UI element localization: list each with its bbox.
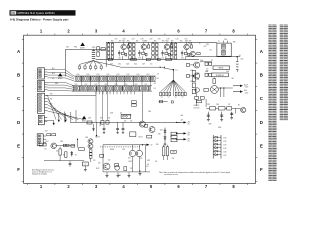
wire bottom return [103, 145, 150, 172]
schematic border frame [24, 35, 256, 183]
wire rail row C [70, 121, 181, 123]
diode D942 [71, 151, 73, 157]
component reference labels scatter [44, 41, 240, 177]
wire riser to rail [70, 112, 72, 122]
transistor pair Q950 [129, 145, 143, 172]
svg-text:3R3: 3R3 [171, 40, 174, 42]
svg-text:3R3: 3R3 [180, 40, 183, 42]
svg-text:6-6) Diagrama Elétrico - Power: 6-6) Diagrama Elétrico - Power Supply pa… [10, 17, 69, 21]
inline resistors bottom rail [108, 58, 171, 60]
resistor ladder R931 [152, 42, 154, 59]
note line bottom-right [159, 171, 230, 176]
svg-text:3114: 3114 [206, 44, 209, 46]
svg-text:7407: 7407 [122, 149, 125, 151]
connector pin labels [35, 70, 36, 145]
svg-text:6105: 6105 [127, 74, 130, 76]
transistor Q951 [103, 163, 110, 170]
resistor R951 [209, 62, 212, 65]
wire drops near PTC [92, 122, 100, 136]
capacitor C932 [230, 112, 233, 116]
junction dot main [173, 69, 175, 71]
capacitor C934 [171, 42, 173, 48]
capacitor drop C923 [122, 122, 125, 133]
svg-text:9-1: 9-1 [175, 70, 177, 72]
resistor R947 [197, 53, 200, 55]
inductor L901 [236, 57, 238, 72]
svg-text:471: 471 [228, 104, 230, 106]
svg-text:BC557: BC557 [139, 136, 143, 138]
svg-text:BC547 2213: BC547 2213 [124, 115, 132, 117]
junction dots right [218, 87, 233, 97]
capacitor drop C922 [116, 122, 119, 133]
capacitor C920 [130, 132, 136, 137]
svg-text:FW: FW [11, 12, 16, 15]
svg-text:BC: BC [238, 105, 240, 107]
wire conn D feed [44, 121, 53, 123]
wire links between banks [82, 81, 151, 86]
svg-text:3R3: 3R3 [119, 40, 122, 42]
svg-text:3R3: 3R3 [136, 40, 139, 42]
transistor Q920 [141, 41, 146, 50]
off-page arrow AC1 [233, 83, 248, 88]
svg-text:NC: NC [52, 78, 54, 80]
svg-text:3R3: 3R3 [127, 40, 130, 42]
svg-text:BD139: BD139 [96, 137, 100, 139]
note block bottom-left [32, 168, 55, 175]
svg-text:2107: 2107 [142, 64, 145, 66]
capacitor C930 [207, 112, 210, 118]
junction node 4a [171, 42, 172, 43]
svg-text:4148: 4148 [223, 137, 226, 139]
wire stubs below bank D2 [96, 91, 135, 94]
wire rail bottom center [103, 144, 152, 147]
wire Q915 collector [200, 61, 212, 63]
signal arrow S1 (down) [53, 123, 55, 126]
svg-text:7408: 7408 [148, 111, 151, 113]
svg-text:CN3: CN3 [45, 131, 48, 133]
row grid letters left [17, 49, 21, 172]
resistor R982 [210, 107, 216, 110]
wire mains top rail [66, 49, 106, 76]
svg-text:+5V: +5V [157, 73, 160, 75]
junction node 3a [152, 42, 153, 43]
transistor Q952 [115, 165, 120, 170]
warning triangle W3 [82, 116, 87, 123]
resistor ladder R941 [171, 42, 173, 59]
svg-text:1k5: 1k5 [120, 113, 122, 115]
svg-text:474: 474 [210, 49, 212, 51]
svg-text:100u: 100u [134, 64, 137, 66]
svg-text:F901: F901 [74, 47, 77, 49]
off-page arrow OP1 [176, 121, 190, 125]
ground symbol G4 [84, 170, 87, 172]
svg-text:3109: 3109 [110, 113, 113, 115]
svg-text:104: 104 [124, 121, 126, 123]
svg-text:222: 222 [170, 136, 172, 138]
svg-text:1R0: 1R0 [172, 152, 175, 154]
svg-text:103: 103 [128, 157, 130, 159]
svg-text:BYD: BYD [233, 42, 236, 44]
connector CN804 [37, 134, 46, 146]
svg-text:GND: GND [55, 83, 58, 85]
capacitor C931 [220, 112, 223, 118]
ground symbol G2 [220, 118, 223, 121]
transistor Q942 [88, 144, 93, 149]
transistor Q945 [51, 143, 57, 149]
wire drop right of Q950 [146, 145, 151, 172]
triac circle D950 [211, 86, 219, 94]
diode D965 [213, 150, 221, 152]
labels above top rail [111, 38, 192, 42]
warning triangle W2 [58, 73, 63, 80]
resistor R971 [106, 91, 109, 124]
svg-text:+12V: +12V [180, 120, 183, 122]
wire verticals from harness [65, 110, 76, 122]
svg-text:F: F [260, 167, 263, 172]
svg-text:6115: 6115 [75, 84, 78, 86]
svg-text:3R3: 3R3 [154, 40, 157, 42]
svg-text:P13: P13 [53, 109, 56, 111]
resistor R925 [142, 42, 147, 59]
junction node 1a [108, 42, 109, 43]
svg-text:+B1: +B1 [187, 122, 190, 124]
transistor Q915 [186, 62, 199, 72]
conn E value labels [47, 134, 56, 136]
svg-text:250V: 250V [226, 71, 229, 73]
svg-text:6105: 6105 [87, 74, 90, 76]
resistor R973 [147, 135, 152, 138]
off-page arrow OP2 [176, 132, 190, 136]
signal arrow S2 (down) [58, 113, 60, 122]
column grid numbers bottom [40, 184, 236, 189]
svg-text:3R3: 3R3 [189, 40, 192, 42]
connector CN801 [38, 68, 48, 79]
svg-text:471: 471 [130, 168, 132, 170]
capacitor C941 [69, 161, 72, 167]
svg-text:S901: S901 [205, 71, 208, 73]
svg-text:P12: P12 [50, 104, 53, 106]
capacitor bank box U901 [217, 39, 231, 57]
svg-text:9-2: 9-2 [168, 97, 170, 99]
svg-text:4148: 4148 [223, 148, 226, 150]
resistor R945 [185, 42, 190, 59]
wire harness CN802 fanout [48, 96, 85, 120]
svg-text:E: E [260, 144, 263, 149]
svg-text:9-2: 9-2 [182, 97, 184, 99]
svg-text:6115: 6115 [145, 84, 148, 86]
svg-text:7315: 7315 [165, 41, 169, 43]
svg-text:7406: 7406 [85, 137, 88, 139]
svg-text:470u: 470u [118, 64, 121, 66]
svg-text:9-2: 9-2 [175, 97, 177, 99]
resistor R998 [115, 164, 119, 167]
svg-text:224: 224 [146, 166, 148, 168]
capacitor C916 [118, 50, 120, 56]
wire band to rail [95, 91, 97, 122]
wire Q917 drop [196, 92, 198, 106]
wire harness CN801 to band [48, 70, 75, 91]
capacitor C914 [127, 42, 129, 48]
grid tick marks left/right edges [22, 39, 257, 181]
resistor R997 [166, 145, 168, 160]
transistor Q941 [88, 139, 93, 144]
svg-text:POWER SW: POWER SW [216, 75, 225, 77]
svg-text:E1: E1 [63, 155, 65, 157]
resistor R952 [205, 73, 208, 76]
svg-text:472: 472 [130, 121, 132, 123]
dashed standby boundary [100, 146, 140, 148]
label box R-value [171, 150, 176, 153]
power rail top (row A) [106, 41, 217, 43]
warning triangle W1 (top) [80, 42, 85, 49]
resistor boxes lower right-mid [194, 97, 205, 110]
svg-text:7115: 7115 [122, 41, 125, 43]
connector CN801B [38, 80, 48, 91]
svg-text:6115: 6115 [95, 84, 98, 86]
svg-text:0R22: 0R22 [96, 168, 99, 170]
svg-text:2211: 2211 [138, 57, 141, 59]
resistor column R960 [192, 71, 200, 94]
resistor ladder R921 [129, 42, 131, 59]
parts list column 1 [268, 25, 276, 181]
wire into ladder [205, 99, 207, 107]
resistor R954 [209, 73, 212, 76]
svg-text:B: B [260, 73, 263, 78]
svg-text:4148: 4148 [223, 151, 226, 153]
IC box bottom [83, 162, 89, 166]
wire standby rail [44, 139, 91, 169]
svg-text:3R3: 3R3 [145, 40, 148, 42]
row grid letters right [260, 49, 264, 172]
zener diode D920 [164, 128, 166, 143]
svg-text:6106: 6106 [200, 60, 203, 62]
fuse F902 [97, 47, 100, 57]
svg-text:P11: P11 [50, 99, 53, 101]
resistor chain R992 [89, 150, 92, 158]
svg-text:R50: R50 [156, 144, 159, 146]
ground symbol G3 [164, 143, 167, 146]
parts list column 2 [280, 25, 288, 121]
diode D964 [213, 147, 221, 149]
svg-text:3103: 3103 [88, 118, 91, 120]
svg-text:F: F [17, 167, 20, 172]
rectifier-filter bank D2 [72, 86, 152, 91]
ground symbol G5 [230, 116, 233, 119]
diode D962 [213, 140, 221, 142]
resistor R953 [204, 88, 208, 91]
resistor ladder R911 [107, 42, 109, 59]
page title [10, 17, 69, 21]
junction node 2a [129, 42, 130, 43]
svg-text:BD911: BD911 [129, 161, 133, 163]
svg-text:4822: 4822 [241, 58, 244, 60]
svg-text:47k: 47k [155, 161, 157, 163]
svg-text:6105: 6105 [107, 74, 110, 76]
capacitor C946 [181, 50, 183, 56]
transistor Q940 [184, 41, 189, 50]
capacitor C926 [138, 50, 140, 56]
rail return wire diagonal [94, 61, 173, 70]
transistor Q910 [121, 41, 126, 50]
band labels row 2 [75, 84, 148, 86]
resistor R935 [165, 42, 170, 59]
svg-text:~220V: ~220V [244, 87, 248, 89]
diode D966 [213, 154, 221, 156]
resistor R991 vertical [59, 147, 61, 155]
svg-text:105: 105 [157, 78, 160, 80]
ground symbol G1 [207, 118, 210, 121]
resistor ladder R942 [174, 42, 176, 59]
fan tap labels [161, 97, 184, 99]
junction node bottom [77, 139, 78, 140]
svg-text:104: 104 [108, 160, 110, 162]
svg-text:47u: 47u [150, 64, 152, 66]
svg-text:~220V: ~220V [244, 92, 248, 94]
wire feeder row C [46, 95, 96, 97]
svg-text:+9V: +9V [154, 83, 157, 85]
svg-text:+B: +B [239, 55, 241, 57]
svg-text:P10: P10 [50, 94, 53, 96]
resistor R950 [205, 62, 208, 65]
signal arrow S3 (down) [65, 113, 67, 122]
rectifier-filter bank D1 [74, 76, 155, 81]
svg-text:RY: RY [211, 60, 213, 62]
resistor stack R975 [171, 132, 177, 142]
label box below conn E [39, 143, 46, 146]
capacitor drop C921 [103, 124, 106, 133]
labels right of bank D1 [154, 73, 160, 89]
svg-text:6107: 6107 [46, 141, 49, 143]
svg-text:2222 470: 2222 470 [194, 107, 200, 109]
resistor R915 [122, 42, 127, 59]
svg-text:472: 472 [56, 151, 58, 153]
svg-text:6115: 6115 [105, 84, 108, 86]
svg-text:2105: 2105 [216, 104, 219, 106]
svg-text:9-2: 9-2 [161, 97, 163, 99]
svg-text:M355 Mini Hi-Fi System 22/30/: M355 Mini Hi-Fi System 22/30/34 [18, 12, 56, 15]
band labels row 1 [77, 74, 150, 76]
svg-text:2105: 2105 [110, 64, 113, 66]
diode ladder bus [213, 135, 221, 159]
svg-text:E: E [17, 144, 20, 149]
resistor R993 [79, 148, 85, 151]
svg-text:12V: 12V [187, 124, 189, 126]
svg-text:2211: 2211 [181, 57, 184, 59]
svg-text:12V: 12V [187, 141, 189, 143]
transformer T902 secondary fan [160, 70, 187, 96]
ground symbols bottom row [106, 170, 142, 177]
svg-text:6105: 6105 [77, 74, 80, 76]
svg-text:6115: 6115 [135, 84, 138, 86]
header model bar [10, 10, 76, 15]
resistor R980 [218, 107, 225, 110]
svg-text:104: 104 [44, 149, 46, 151]
svg-text:2106: 2106 [126, 64, 129, 66]
svg-text:5V6: 5V6 [158, 134, 161, 136]
grid tick marks top/bottom edges [27, 34, 247, 185]
svg-text:473: 473 [206, 69, 208, 71]
transistor Q914 [190, 51, 195, 56]
resistor ladder R912 [111, 42, 113, 59]
capacitor C924 [148, 42, 150, 48]
wire run right from Q940 [55, 144, 75, 147]
svg-text:7805: 7805 [188, 43, 191, 45]
mains switch box SW901 [212, 73, 229, 77]
capacitor C950 [124, 167, 127, 171]
svg-text:3104: 3104 [60, 141, 63, 143]
svg-text:6115: 6115 [85, 84, 88, 86]
svg-text:7812: 7812 [207, 104, 210, 106]
capacitor C944 [190, 42, 192, 48]
resistor R981 [227, 107, 232, 110]
svg-text:3R3: 3R3 [111, 40, 114, 42]
resistor R972 [145, 124, 148, 127]
svg-text:GND: GND [118, 175, 121, 177]
diode ladder labels [223, 137, 226, 157]
capacitor C936 [161, 50, 163, 56]
svg-text:E2: E2 [75, 155, 77, 157]
svg-text:2211: 2211 [161, 57, 164, 59]
pin header box J2 [121, 114, 131, 118]
svg-text:BD140: BD140 [110, 149, 114, 151]
wire row D right [206, 108, 241, 113]
transistor Q916 [186, 73, 199, 83]
svg-text:6105: 6105 [147, 74, 150, 76]
svg-text:T901: T901 [92, 47, 96, 49]
off-page arrow AC2 [233, 89, 248, 94]
wire below fan [159, 101, 174, 104]
PTC box R965 [87, 118, 92, 125]
labels near Q914 [199, 43, 212, 51]
svg-text:2211: 2211 [118, 57, 121, 59]
svg-text:3R3: 3R3 [100, 118, 103, 120]
svg-text:3117: 3117 [204, 46, 207, 48]
transistor Q935 [241, 107, 246, 112]
svg-text:3R9: 3R9 [197, 73, 200, 75]
capacitor pair C925 [132, 101, 137, 107]
transistor Q926 [139, 127, 156, 139]
transistor Q930 [164, 41, 169, 50]
svg-text:115: 115 [154, 88, 156, 90]
svg-text:4148: 4148 [223, 155, 226, 157]
resistor R994 [100, 154, 104, 157]
svg-text:2105: 2105 [224, 39, 227, 41]
svg-text:3112: 3112 [66, 47, 69, 49]
transistor Q925 [124, 92, 152, 128]
svg-text:6105: 6105 [117, 74, 120, 76]
svg-text:ZD1: ZD1 [160, 130, 163, 132]
off-page arrow OP3 [176, 138, 190, 142]
svg-text:4148: 4148 [223, 141, 226, 143]
svg-text:222: 222 [140, 158, 142, 160]
connector CN802 [38, 93, 48, 113]
svg-text:6115: 6115 [115, 84, 118, 86]
svg-text:6115: 6115 [125, 84, 128, 86]
svg-text:+B: +B [150, 145, 152, 147]
svg-text:3R3: 3R3 [162, 40, 165, 42]
vertical element L902 [213, 77, 216, 83]
labels mid right [206, 69, 208, 73]
svg-text:4148: 4148 [223, 144, 226, 146]
diode D963 [213, 143, 221, 145]
column grid numbers top [40, 28, 236, 33]
svg-text:6105: 6105 [97, 74, 100, 76]
transformer T901 [79, 47, 103, 71]
wire right rail row A [186, 55, 244, 60]
svg-text:12V: 12V [187, 135, 189, 137]
svg-text:D: D [260, 120, 263, 125]
transistor Q917 [195, 88, 199, 92]
